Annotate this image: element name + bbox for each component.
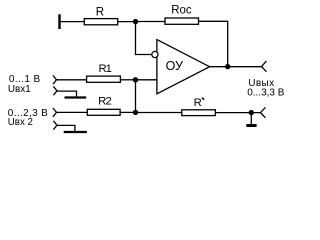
- node A junction dot: [133, 19, 138, 24]
- svg-text:Uвх1: Uвх1: [8, 84, 31, 95]
- wire input2 to R2: [57, 111, 88, 113]
- svg-text:R: R: [194, 97, 202, 109]
- svg-text:R: R: [96, 7, 104, 19]
- svg-text:Uвх 2: Uвх 2: [8, 117, 33, 128]
- node E ground junction dot: [249, 110, 254, 115]
- svg-text:R1: R1: [99, 63, 112, 75]
- wire terminal to R: [61, 21, 85, 23]
- wire Roc to output node (feedback): [199, 21, 228, 66]
- wire op-amp output: [210, 66, 262, 68]
- wire R1 to node C: [120, 79, 135, 81]
- step waveform symbol 1: [57, 91, 77, 97]
- terminal bar (reference voltage input): [58, 14, 60, 29]
- resistor R: [84, 19, 117, 25]
- svg-text:Roc: Roc: [171, 5, 192, 17]
- step waveform symbol 2: [57, 125, 75, 131]
- svg-text:0...3,3 В: 0...3,3 В: [247, 87, 285, 98]
- wire R-prime to node E: [215, 112, 260, 114]
- terminal chevron for step source 2: [53, 121, 57, 130]
- ground bar: [246, 124, 256, 127]
- svg-text:ОУ: ОУ: [166, 59, 183, 73]
- label R-prime tick: [202, 98, 204, 100]
- node D junction dot: [133, 110, 138, 115]
- wire R to node A: [118, 21, 136, 23]
- wire node D to R-prime: [136, 112, 182, 114]
- op-amp U1 triangle: [157, 40, 210, 94]
- step waveform 1 baseline bar: [65, 96, 87, 98]
- wire node A down to inverting input: [136, 22, 152, 55]
- wire node C to non-inverting input: [136, 79, 157, 81]
- resistor R1: [87, 76, 121, 82]
- terminal chevron for step source 1: [53, 86, 57, 95]
- inverting input circle: [152, 51, 158, 57]
- node C junction dot: [133, 77, 138, 82]
- output terminal chevron Uvyh: [262, 61, 267, 72]
- input terminal chevron Uvh2: [53, 108, 57, 117]
- node B output junction dot: [225, 64, 230, 69]
- step waveform 2 baseline bar: [64, 131, 87, 133]
- wire R2 to node D: [120, 111, 135, 113]
- resistor R2: [87, 109, 120, 115]
- wire node C down to node D: [135, 80, 137, 113]
- wire input1 to R1: [57, 79, 87, 81]
- input terminal chevron Uvh1: [53, 75, 57, 84]
- resistor Roc: [165, 18, 199, 24]
- resistor R-prime: [182, 110, 216, 116]
- svg-text:R2: R2: [98, 96, 111, 108]
- ground tap wire: [250, 113, 252, 124]
- output terminal chevron lower: [261, 107, 266, 117]
- wire node A to Roc: [136, 21, 166, 23]
